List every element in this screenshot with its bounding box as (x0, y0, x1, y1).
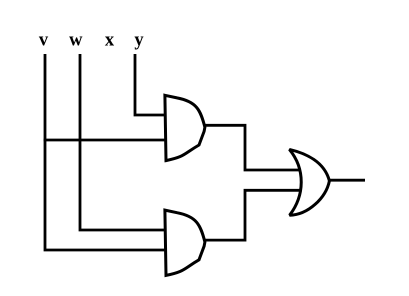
and-gate U2 (bottom) (165, 210, 205, 275)
svg-text:y: y (134, 30, 144, 50)
and-gate U1 (top) (165, 95, 205, 160)
wire y vertical with turn to AND1 upper input (135, 54, 166, 115)
svg-text:x: x (105, 30, 115, 50)
wire AND2 output to OR lower input (204, 190, 302, 240)
wire v branch to AND1 lower input (44, 139, 166, 142)
wire OR output (329, 179, 365, 182)
wire v vertical with turn to AND2 lower input (45, 54, 166, 250)
svg-text:w: w (69, 30, 83, 50)
svg-text:v: v (39, 30, 49, 50)
wire AND1 output to OR upper input (204, 125, 301, 170)
or-gate U3 (289, 149, 329, 215)
wire w vertical with turn to AND2 upper input (80, 54, 166, 230)
